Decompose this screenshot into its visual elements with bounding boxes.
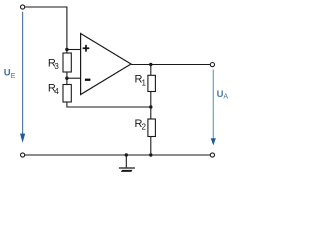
label R1	[135, 74, 147, 88]
svg-text:3: 3	[54, 62, 59, 71]
terminal input top	[21, 5, 25, 9]
wire output	[131, 64, 210, 66]
label R4	[48, 83, 60, 96]
terminal input bottom	[21, 153, 25, 157]
wire non-inverting input	[67, 49, 81, 51]
wire inverting input	[67, 77, 81, 79]
wire R1 to R2	[150, 92, 152, 120]
wire bottom rail	[25, 154, 211, 156]
svg-text:E: E	[11, 73, 16, 80]
svg-text:2: 2	[142, 122, 147, 131]
wire output node to R1	[150, 65, 152, 76]
svg-text:A: A	[223, 94, 228, 101]
node junction - input	[65, 77, 68, 80]
svg-text:1: 1	[142, 78, 147, 87]
label U_A	[217, 89, 229, 101]
svg-text:4: 4	[54, 87, 59, 96]
ground	[119, 155, 135, 172]
terminal output top	[210, 63, 214, 67]
label R2	[135, 118, 147, 131]
node junction R2/rail	[149, 153, 152, 156]
resistor R4	[63, 85, 71, 103]
label U_E	[4, 68, 16, 81]
wire R2 bottom to rail	[150, 137, 152, 156]
label R3	[48, 57, 60, 70]
node junction ground/rail	[125, 153, 128, 156]
resistor R1	[148, 75, 156, 91]
wire feedback (R4 bottom to R1/R2 node)	[67, 102, 151, 107]
arrow U_A voltage	[211, 70, 216, 146]
resistor R2	[148, 119, 156, 137]
node junction output/R1	[149, 63, 152, 66]
wire between R3 and R4	[66, 72, 68, 85]
wire input top (from terminal right then down to + node)	[25, 7, 67, 53]
resistor R3	[63, 53, 71, 72]
node junction R1/R2/feedback	[149, 105, 152, 108]
arrow U_E voltage	[20, 12, 25, 143]
terminal output bottom	[210, 153, 214, 157]
node junction + input	[65, 48, 68, 51]
op-amp U1	[81, 34, 131, 95]
